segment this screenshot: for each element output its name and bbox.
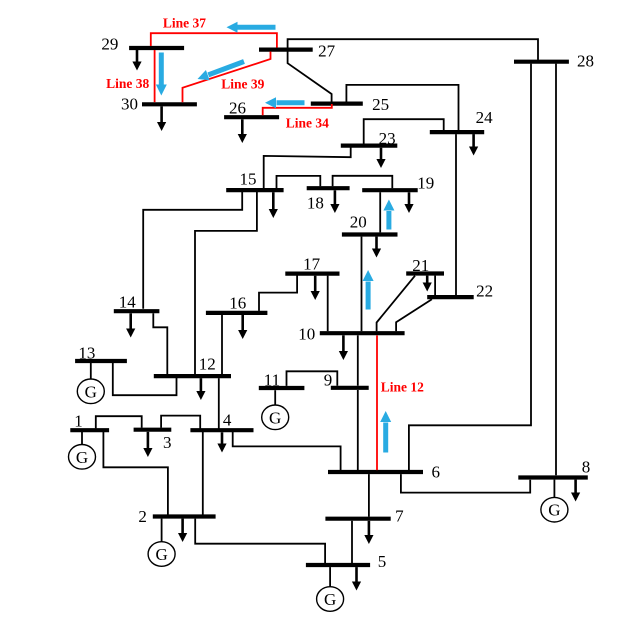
svg-text:26: 26	[229, 98, 246, 117]
bus 14 bar	[114, 309, 160, 313]
wire Line 39 red 27-30	[183, 52, 271, 103]
bus 4 bar	[190, 428, 253, 432]
wire 23-15	[264, 147, 351, 188]
bus 30 bar	[142, 102, 197, 106]
svg-text:18: 18	[307, 194, 324, 213]
bus 10 bar	[320, 331, 405, 335]
flow arrow on Line 37	[227, 22, 276, 33]
svg-text:Line 34: Line 34	[286, 115, 329, 130]
svg-text:22: 22	[476, 282, 493, 301]
svg-text:4: 4	[223, 411, 232, 430]
svg-text:2: 2	[138, 507, 147, 526]
svg-text:1: 1	[74, 411, 83, 430]
bus 23 bar	[341, 144, 398, 148]
generator G5	[317, 567, 344, 611]
load at bus 2	[178, 519, 187, 542]
load at bus 29	[132, 50, 141, 71]
generator G2	[148, 519, 175, 567]
bus 2 bar	[153, 514, 216, 518]
bus 19 bar	[362, 188, 418, 192]
bus 6 bar	[328, 470, 423, 474]
svg-text:21: 21	[412, 256, 429, 275]
svg-text:17: 17	[303, 255, 321, 274]
load at bus 17	[311, 276, 320, 300]
svg-text:25: 25	[372, 95, 389, 114]
wire 2-4	[202, 432, 204, 515]
svg-text:3: 3	[163, 433, 172, 452]
wire 19-20	[379, 192, 381, 232]
wire 7-5	[351, 521, 353, 563]
svg-text:Line 38: Line 38	[106, 76, 149, 91]
load at bus 24	[469, 134, 478, 155]
bus 3 bar	[134, 428, 172, 432]
generator G8	[541, 480, 568, 522]
wire Line 12 red 10-6	[376, 335, 378, 470]
flow arrow on Line 12	[380, 411, 391, 453]
svg-text:G: G	[269, 408, 281, 427]
wire 13-12	[113, 363, 177, 395]
svg-text:Line 39: Line 39	[221, 77, 264, 92]
bus 27 bar	[259, 47, 313, 51]
svg-text:6: 6	[431, 463, 440, 482]
svg-text:G: G	[155, 545, 167, 564]
load at bus 4	[217, 432, 226, 452]
svg-text:28: 28	[577, 52, 594, 71]
flow arrow 10 to 20	[363, 270, 374, 310]
bus 22 bar	[427, 295, 474, 299]
svg-text:14: 14	[119, 293, 137, 312]
wire 6-7	[368, 474, 370, 517]
wire 15-18	[277, 176, 321, 188]
load at bus 3	[143, 432, 152, 457]
wire 10-9	[357, 335, 359, 385]
load at bus 30	[157, 106, 166, 131]
generator G11	[262, 390, 289, 429]
wire 18-19	[333, 176, 393, 189]
load at bus 7	[364, 521, 373, 544]
wire 6-8	[401, 474, 530, 493]
wire 15-14	[143, 192, 242, 309]
load at bus 26	[238, 119, 247, 143]
load at bus 5	[352, 567, 361, 590]
wire 11-9	[287, 371, 338, 386]
svg-text:5: 5	[378, 552, 387, 571]
wire 21-10	[377, 276, 415, 332]
wire 16-17	[259, 276, 297, 311]
svg-text:23: 23	[379, 129, 396, 148]
svg-text:27: 27	[318, 42, 336, 61]
bus 17 bar	[285, 272, 339, 276]
wire 9-6	[357, 390, 359, 470]
wire 15-12	[195, 192, 257, 374]
load at bus 14	[126, 313, 135, 337]
bus 13 bar	[75, 359, 127, 363]
svg-text:7: 7	[395, 507, 404, 526]
load at bus 15	[269, 192, 278, 218]
bus 28 bar	[514, 60, 569, 64]
wire Line 38 red 29-30	[154, 50, 156, 102]
svg-text:15: 15	[240, 170, 257, 189]
svg-text:G: G	[324, 590, 336, 609]
bus 18 bar	[307, 186, 350, 190]
flow arrow on Line 34	[265, 97, 305, 108]
svg-text:13: 13	[78, 343, 95, 362]
generator G1	[69, 432, 96, 469]
bus 12 bar	[154, 374, 231, 378]
wire 25-24	[346, 85, 458, 131]
wire 28-6	[409, 64, 531, 471]
bus 1 bar	[70, 428, 109, 432]
wire Line 34 red 26-25	[263, 104, 332, 115]
bus 8 bar	[518, 475, 588, 479]
wire 23-24	[364, 119, 444, 144]
svg-text:8: 8	[582, 458, 591, 477]
bus 5 bar	[306, 563, 370, 567]
svg-text:30: 30	[121, 95, 138, 114]
svg-text:G: G	[85, 382, 97, 401]
load at bus 16	[238, 315, 247, 339]
load at bus 19	[404, 192, 413, 213]
flow arrow 20 to 19	[383, 200, 394, 230]
svg-text:16: 16	[229, 294, 246, 313]
bus 7 bar	[325, 517, 390, 521]
svg-text:29: 29	[101, 35, 118, 54]
generator G13	[77, 363, 104, 404]
svg-text:9: 9	[324, 371, 333, 390]
bus 21 bar	[406, 271, 444, 275]
wire Line 37 red 29-27	[151, 33, 277, 47]
wire 2-5	[195, 519, 325, 564]
svg-text:20: 20	[350, 213, 367, 232]
svg-text:11: 11	[264, 371, 280, 390]
wire 4-6	[233, 432, 341, 471]
svg-text:24: 24	[476, 108, 494, 127]
svg-text:12: 12	[199, 355, 216, 374]
bus 25 bar	[311, 101, 363, 105]
wire 3-4	[161, 416, 200, 429]
bus 26 bar	[224, 115, 279, 119]
svg-text:Line 37: Line 37	[163, 15, 206, 30]
wire 21-22	[434, 276, 436, 295]
load at bus 10	[339, 335, 348, 360]
flow arrow on Line 38	[156, 53, 167, 96]
flow arrow on Line 39	[198, 62, 245, 81]
bus 16 bar	[206, 311, 268, 315]
wire 24-22	[455, 134, 457, 295]
svg-text:10: 10	[298, 325, 315, 344]
wire 1-3	[96, 416, 142, 428]
wire 28-8	[555, 64, 557, 476]
wire 22-10	[396, 299, 432, 331]
wire 16-12	[221, 315, 223, 374]
wire 12-4	[218, 378, 220, 428]
wire 20-10	[361, 237, 363, 332]
bus 15 bar	[226, 188, 283, 192]
svg-text:19: 19	[417, 173, 434, 192]
load at bus 18	[330, 190, 339, 213]
wire 1-2	[103, 432, 167, 515]
bus 20 bar	[342, 232, 398, 236]
load at bus 20	[372, 237, 381, 258]
bus 24 bar	[430, 130, 484, 134]
wire 17-10	[327, 276, 329, 332]
bus 9 bar	[331, 386, 369, 390]
bus 11 bar	[259, 386, 305, 390]
load at bus 12	[196, 378, 205, 400]
load at bus 21	[423, 276, 432, 292]
svg-text:G: G	[548, 501, 560, 520]
bus 29 bar	[129, 46, 184, 50]
wire 27-25	[288, 51, 332, 101]
load at bus 23	[376, 148, 385, 168]
wire 27-28	[288, 39, 538, 60]
svg-text:Line 12: Line 12	[381, 379, 424, 394]
wire 14-12	[153, 313, 167, 374]
svg-text:G: G	[76, 448, 88, 467]
load at bus 8	[571, 480, 580, 502]
